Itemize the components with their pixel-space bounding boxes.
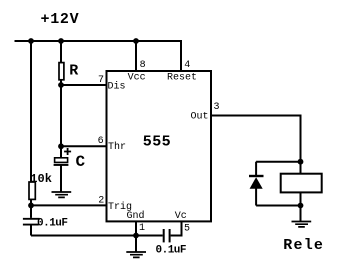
svg-text:Out: Out [191, 112, 209, 123]
svg-text:0.1uF: 0.1uF [156, 245, 187, 257]
svg-text:555: 555 [143, 133, 171, 150]
svg-text:C: C [76, 153, 86, 171]
svg-text:10k: 10k [30, 172, 52, 186]
svg-text:Vcc: Vcc [128, 72, 146, 83]
svg-text:4: 4 [184, 60, 190, 71]
svg-text:Reset: Reset [167, 72, 197, 83]
svg-text:5: 5 [184, 224, 190, 235]
svg-text:2: 2 [98, 196, 104, 207]
svg-text:Vc: Vc [175, 211, 187, 222]
svg-text:R: R [69, 63, 78, 80]
svg-text:+12V: +12V [41, 11, 80, 28]
svg-text:Thr: Thr [108, 141, 126, 153]
svg-text:Dis: Dis [108, 81, 126, 93]
svg-text:3: 3 [214, 102, 220, 113]
svg-text:Rele: Rele [283, 237, 324, 254]
svg-text:7: 7 [98, 75, 104, 86]
svg-text:Gnd: Gnd [127, 210, 145, 222]
svg-text:1: 1 [139, 223, 145, 234]
svg-text:0.1uF: 0.1uF [37, 218, 68, 230]
svg-text:8: 8 [140, 60, 146, 71]
svg-text:6: 6 [98, 136, 104, 147]
